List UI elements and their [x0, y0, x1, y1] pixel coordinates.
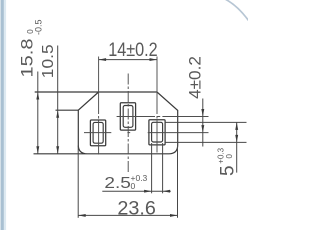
dim 4 line	[202, 99, 204, 147]
dim 14 line	[99, 59, 157, 61]
svg-text:5: 5	[218, 165, 239, 176]
centerline horizontal side pins	[84, 132, 209, 134]
arrow dim10.5 top	[56, 110, 59, 118]
centerline vertical left pin	[98, 57, 100, 155]
dim text 15.8 with tolerance 0/-0.5 (rotated)	[17, 19, 43, 77]
arrow dim23.6 right	[170, 214, 178, 217]
svg-text:10.5: 10.5	[40, 44, 57, 78]
arrow dim23.6 left	[78, 214, 86, 217]
border strip (left, light blue)	[1, 0, 4, 230]
border arc (top-right, light blue)	[225, 0, 249, 21]
svg-text:2.5: 2.5	[104, 175, 131, 192]
pin N (right) inner slot	[152, 122, 163, 142]
arrow dim15.8 bottom	[36, 146, 39, 154]
svg-text:14±0.2: 14±0.2	[108, 40, 158, 61]
dim 5 line	[236, 122, 238, 172]
dim 5 extension top	[165, 121, 246, 123]
dim 23.6 line	[78, 214, 177, 216]
arrow dim5 top (tip up)	[235, 122, 238, 129]
centerline horizontal center pin	[117, 116, 209, 118]
arrow dim10.5 bottom	[56, 146, 59, 154]
pin L1 (left) outer	[90, 120, 105, 146]
svg-text:23.6: 23.6	[117, 198, 155, 219]
svg-text:15.8: 15.8	[17, 39, 36, 78]
dim 5 extension bottom	[165, 141, 246, 143]
svg-text:0: 0	[225, 154, 234, 159]
dim text 4±0.2 (rotated)	[187, 56, 205, 99]
centerline vertical center pin	[127, 74, 129, 175]
arrow dim2.5 left (outside)	[144, 190, 152, 193]
dim 2.5 extension right	[162, 143, 164, 193]
svg-text:4±0.2: 4±0.2	[187, 56, 205, 99]
dim 10.5 line	[57, 46, 59, 154]
arrow dim15.8 top	[36, 92, 39, 100]
chamfer-bottom extension line	[56, 109, 79, 111]
centerline vertical right pin	[156, 57, 158, 153]
dim 2.5 line	[102, 190, 171, 192]
dim 2.5 extension left	[151, 143, 153, 193]
connector outline	[34, 92, 178, 154]
dim 23.6 extension right	[177, 146, 179, 218]
svg-text:0: 0	[131, 181, 136, 191]
svg-text:-0.5: -0.5	[34, 19, 44, 35]
dim 15.8 line	[37, 72, 39, 154]
pin L1 (left) inner slot	[93, 122, 103, 143]
pin N (right) outer	[149, 120, 165, 145]
arrow dim14 left	[99, 58, 107, 61]
arrow dim4 top (tip down)	[201, 109, 204, 117]
pin E (center) inner slot	[123, 106, 133, 128]
arrow dim14 right	[150, 58, 158, 61]
arrow dim2.5 right (outside)	[163, 190, 171, 193]
dim text 10.5 (rotated)	[40, 44, 57, 78]
dim text 5 +0.3/0 (rotated)	[217, 147, 239, 176]
arrow dim5 bottom (tip down)	[235, 135, 238, 143]
arrow dim4 bottom (tip down)	[201, 125, 204, 133]
dim 23.6 extension left	[77, 146, 79, 218]
pin E (center) outer	[120, 103, 135, 130]
